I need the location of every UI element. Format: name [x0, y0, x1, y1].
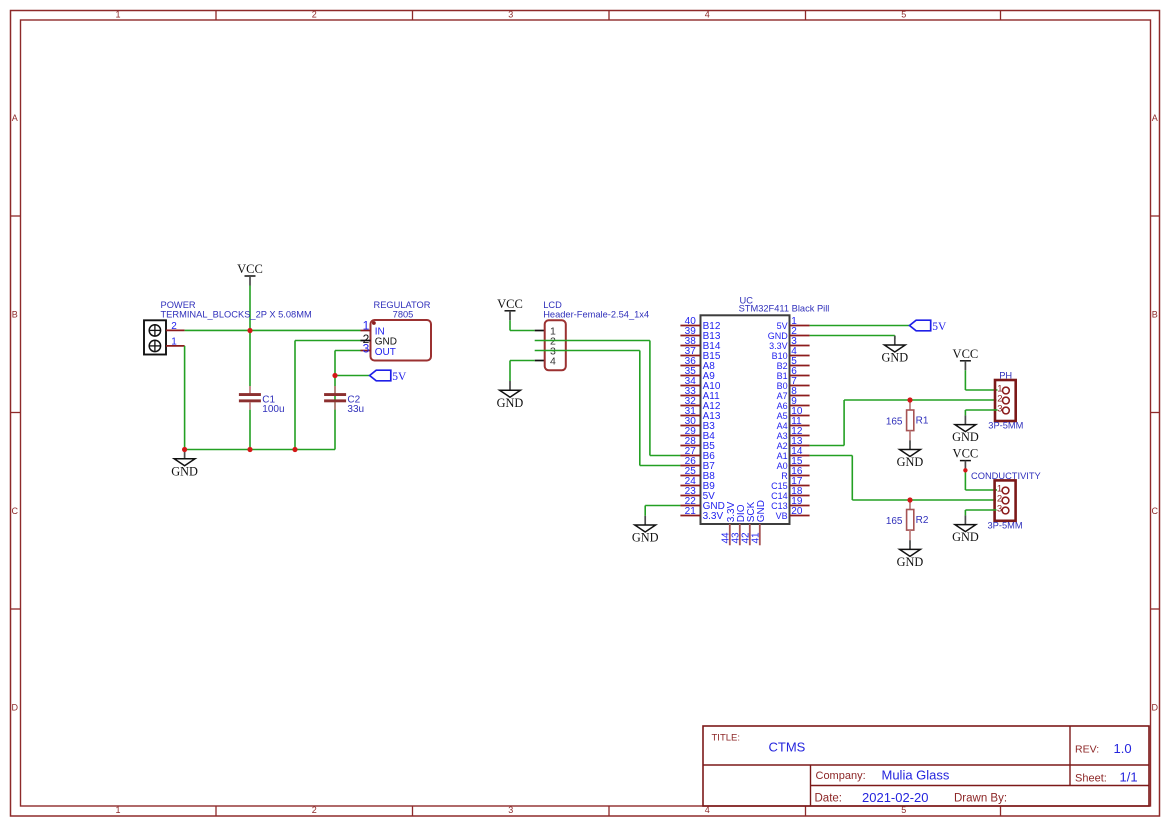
svg-text:1: 1: [171, 336, 177, 347]
svg-text:C15: C15: [771, 481, 788, 491]
svg-text:Header-Female-2.54_1x4: Header-Female-2.54_1x4: [543, 309, 649, 319]
svg-text:CTMS: CTMS: [769, 740, 806, 755]
svg-text:GND: GND: [632, 531, 659, 545]
svg-text:33u: 33u: [347, 404, 364, 415]
svg-text:R2: R2: [916, 515, 929, 526]
svg-text:3: 3: [508, 9, 513, 19]
svg-text:R: R: [781, 471, 788, 481]
svg-text:2021-02-20: 2021-02-20: [862, 790, 929, 805]
svg-text:REV:: REV:: [1075, 744, 1099, 756]
svg-text:A: A: [1152, 113, 1158, 123]
svg-text:OUT: OUT: [375, 347, 396, 358]
svg-text:Mulia Glass: Mulia Glass: [882, 767, 950, 782]
svg-text:R1: R1: [916, 416, 929, 427]
svg-text:Date:: Date:: [815, 793, 843, 805]
svg-text:TITLE:: TITLE:: [712, 732, 741, 743]
svg-text:A2: A2: [777, 441, 788, 451]
svg-text:B: B: [1152, 309, 1158, 319]
svg-text:1.0: 1.0: [1114, 741, 1132, 756]
svg-text:41: 41: [751, 532, 762, 544]
svg-text:GND: GND: [768, 331, 789, 341]
svg-text:7805: 7805: [393, 309, 414, 319]
svg-text:5V: 5V: [777, 321, 788, 331]
svg-text:1: 1: [115, 805, 120, 815]
svg-text:2: 2: [171, 321, 177, 332]
svg-text:GND: GND: [756, 500, 767, 522]
svg-text:A3: A3: [777, 431, 788, 441]
svg-text:TERMINAL_BLOCKS_2P X 5.08MM: TERMINAL_BLOCKS_2P X 5.08MM: [161, 309, 312, 319]
svg-text:2: 2: [312, 805, 317, 815]
svg-text:A6: A6: [777, 401, 788, 411]
svg-text:A: A: [12, 113, 18, 123]
svg-text:C13: C13: [771, 501, 788, 511]
svg-text:A1: A1: [777, 451, 788, 461]
svg-text:20: 20: [791, 506, 803, 517]
svg-text:GND: GND: [897, 555, 924, 569]
svg-text:A5: A5: [777, 411, 788, 421]
svg-text:2: 2: [312, 9, 317, 19]
svg-text:C: C: [11, 506, 18, 516]
svg-text:C: C: [1151, 506, 1158, 516]
svg-text:D: D: [11, 702, 18, 712]
svg-text:GND: GND: [171, 464, 198, 478]
svg-text:B0: B0: [777, 381, 788, 391]
svg-text:GND: GND: [897, 455, 924, 469]
svg-text:3: 3: [508, 805, 513, 815]
svg-text:VCC: VCC: [953, 447, 979, 461]
svg-text:B1: B1: [777, 371, 788, 381]
svg-text:VB: VB: [776, 511, 788, 521]
svg-text:3: 3: [997, 504, 1002, 515]
svg-text:3P-5MM: 3P-5MM: [988, 421, 1023, 431]
svg-text:D: D: [1151, 702, 1158, 712]
svg-text:B: B: [12, 309, 18, 319]
svg-text:165: 165: [886, 516, 903, 527]
svg-text:VCC: VCC: [497, 297, 523, 311]
svg-text:GND: GND: [952, 430, 979, 444]
svg-text:A4: A4: [777, 421, 788, 431]
svg-text:A7: A7: [777, 391, 788, 401]
svg-text:VCC: VCC: [953, 347, 979, 361]
svg-text:1/1: 1/1: [1120, 770, 1138, 785]
svg-text:1: 1: [363, 318, 370, 332]
svg-text:Sheet:: Sheet:: [1075, 772, 1107, 784]
svg-text:VCC: VCC: [237, 262, 263, 276]
svg-text:B10: B10: [772, 351, 788, 361]
svg-text:21: 21: [685, 506, 697, 517]
svg-text:3.3V: 3.3V: [769, 341, 788, 351]
svg-text:B2: B2: [777, 361, 788, 371]
svg-text:GND: GND: [952, 530, 979, 544]
svg-text:5V: 5V: [932, 321, 947, 333]
svg-text:3P-5MM: 3P-5MM: [988, 521, 1023, 531]
svg-text:165: 165: [886, 417, 903, 428]
svg-text:GND: GND: [497, 396, 524, 410]
svg-text:3: 3: [997, 404, 1002, 415]
svg-text:4: 4: [550, 355, 556, 367]
svg-text:4: 4: [705, 9, 710, 19]
svg-text:C14: C14: [771, 491, 788, 501]
svg-text:100u: 100u: [262, 404, 284, 415]
svg-text:GND: GND: [881, 351, 908, 365]
svg-text:5: 5: [901, 9, 906, 19]
svg-text:3: 3: [363, 342, 370, 356]
svg-text:3.3V: 3.3V: [703, 511, 724, 522]
svg-text:A0: A0: [777, 461, 788, 471]
svg-text:Drawn By:: Drawn By:: [954, 793, 1007, 805]
svg-text:STM32F411 Black Pill: STM32F411 Black Pill: [739, 304, 830, 314]
svg-text:1: 1: [115, 9, 120, 19]
svg-text:5V: 5V: [392, 371, 407, 383]
svg-text:Company:: Company:: [816, 770, 866, 782]
